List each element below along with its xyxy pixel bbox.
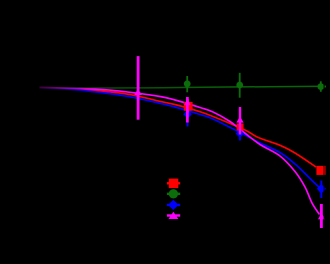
magenta error bar 4 bbox=[320, 204, 323, 228]
legend entry magenta line bbox=[167, 214, 180, 216]
frame right edge redraw (black axis line over markers) bbox=[323, 0, 326, 264]
red point 1 bbox=[184, 102, 193, 111]
red point 3 bbox=[316, 166, 325, 175]
magenta error bar 2 bbox=[186, 97, 189, 123]
magenta point 3 bbox=[236, 116, 243, 122]
legend blue diamond bbox=[168, 200, 178, 210]
anti-alias dimming of overlapped curve bundle at left bbox=[39, 82, 97, 98]
magenta error bar 1 bbox=[137, 56, 140, 120]
green point 2 bbox=[236, 82, 243, 89]
legend entry red line bbox=[167, 182, 180, 184]
red error bar 2 bbox=[239, 121, 241, 133]
green x-bar remnant beyond frame line bbox=[325, 86, 326, 88]
blue point 3 bbox=[317, 184, 326, 194]
legend entry blue line bbox=[167, 204, 180, 206]
green point 1 bbox=[184, 80, 191, 87]
green error bar 1 bbox=[186, 76, 188, 92]
legend green circle bbox=[169, 189, 178, 198]
blue point 2 bbox=[236, 129, 245, 137]
green point 3 bbox=[317, 83, 324, 90]
magenta error bar 3 bbox=[239, 107, 241, 135]
red point 3 right remnant beyond frame line bbox=[324, 166, 325, 175]
legend magenta triangle bbox=[169, 212, 179, 219]
green curve bbox=[40, 86, 326, 88]
green error bar 2 bbox=[239, 73, 241, 98]
magenta curve bbox=[40, 87, 320, 214]
blue point 1 bbox=[183, 110, 192, 119]
magenta point 1 bbox=[134, 89, 142, 95]
magenta point 2 bbox=[184, 99, 190, 105]
green error bar 3 bbox=[320, 81, 322, 92]
magenta point 4 bbox=[318, 213, 325, 219]
blue curve bbox=[40, 88, 321, 188]
legend entry green line bbox=[167, 193, 180, 195]
blue error bar 1 bbox=[187, 105, 189, 127]
legend red square bbox=[169, 179, 179, 189]
blue error bar 3 bbox=[320, 181, 322, 199]
red point 2 bbox=[237, 124, 244, 131]
red error bar 1 bbox=[187, 99, 189, 112]
blue point 3 tip remnant beyond frame line bbox=[325, 187, 326, 191]
red curve bbox=[40, 88, 317, 167]
blue error bar 2 bbox=[239, 126, 241, 141]
